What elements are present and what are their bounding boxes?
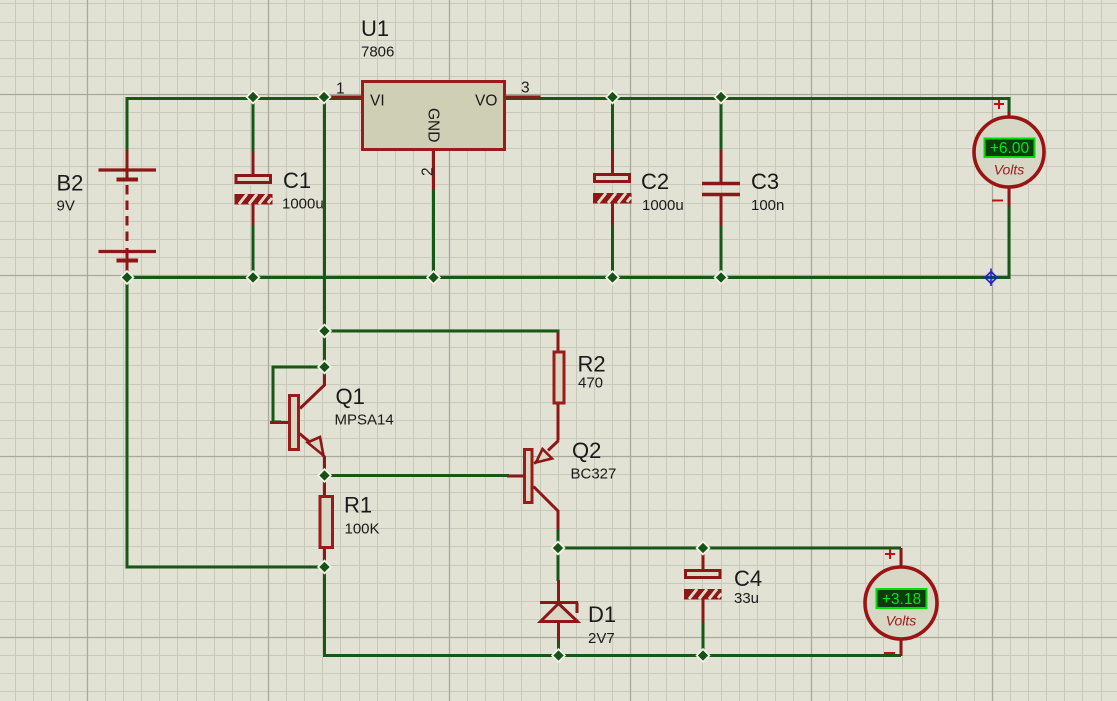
svg-text:3: 3 (521, 80, 530, 97)
C1 bottom plate hatched (235, 194, 273, 205)
wire ground rail (127, 276, 1009, 279)
VM1 LCD (985, 139, 1035, 158)
pin C2 leads (611, 150, 614, 225)
pin B2 dashed body (126, 185, 129, 247)
pin R1 leads (323, 477, 326, 566)
node C3 top (715, 91, 728, 104)
svg-text:1: 1 (336, 81, 345, 98)
capacitor C4 polarized (684, 566, 762, 607)
C3 plate bottom (702, 193, 740, 197)
svg-text:BC327: BC327 (571, 466, 617, 483)
svg-text:C3: C3 (751, 169, 779, 194)
Q1 base bar (290, 396, 299, 450)
VM1 minus mark (992, 200, 1003, 202)
resistor R1 (320, 497, 333, 548)
wire R1 bottom drop (323, 567, 326, 657)
voltmeter VM2 (865, 549, 937, 653)
pin meter1 leads (1008, 111, 1011, 206)
svg-text:+6.00: +6.00 (990, 140, 1030, 157)
svg-text:D1: D1 (588, 602, 616, 627)
svg-text:+3.18: +3.18 (882, 591, 921, 608)
VM1 plus mark (994, 99, 1004, 109)
node B2 ground (121, 271, 134, 284)
wire battery top drop (126, 97, 129, 151)
wire C2 bottom (611, 224, 614, 277)
wire top rail (127, 97, 1009, 100)
C2 top plate (595, 175, 630, 182)
capacitor C3 (702, 184, 740, 195)
wire Q2 base (325, 474, 510, 477)
VM2 body circle (865, 567, 937, 639)
wire U1 pin2 lower (432, 189, 435, 277)
node U1 pin2 ground (427, 271, 440, 284)
svg-text:R1: R1 (344, 493, 372, 518)
pin U1.3 (506, 96, 541, 99)
node Q1 emitter / R1 top (318, 469, 331, 482)
C3 plate top (702, 182, 740, 186)
VM2 minus mark (884, 652, 895, 654)
svg-text:2: 2 (420, 167, 437, 176)
Q2 collector lead (534, 487, 559, 530)
node R1 bottom (318, 561, 331, 574)
wire C2 top (611, 97, 614, 151)
wire branch to R2 (325, 330, 560, 333)
node C4 top (697, 542, 710, 555)
wire C1 bottom (252, 224, 255, 277)
svg-text:VI: VI (370, 93, 385, 110)
wire Q2 collector lower (557, 528, 560, 548)
svg-text:2V7: 2V7 (588, 630, 615, 647)
svg-text:Q2: Q2 (572, 438, 601, 463)
Q1 base lead (270, 421, 289, 424)
svg-text:U1: U1 (361, 16, 389, 41)
capacitor C2 polarized (593, 169, 684, 214)
wire bottom rail (325, 654, 902, 657)
pin D1 leads (557, 580, 560, 641)
C1 top plate (236, 176, 271, 183)
wire mid rail to meter2 (558, 547, 901, 550)
Q1 emitter lead (300, 434, 313, 445)
Q1 collector lead (300, 368, 325, 409)
wire C1 top (252, 97, 255, 152)
wire D1 top (557, 548, 560, 581)
origin marker (983, 269, 1001, 287)
node Q1 base loop (318, 361, 331, 374)
wire meter1 minus (1008, 205, 1011, 279)
B2 plate long bottom (99, 250, 157, 253)
svg-text:100n: 100n (751, 197, 784, 214)
zener diode D1 (540, 602, 616, 647)
wire D1 bottom (557, 639, 560, 655)
pin meter2 leads (900, 548, 903, 656)
capacitor C1 polarized (235, 168, 324, 213)
transistor Q2 BC327 (507, 438, 616, 529)
B2 plate short top (117, 178, 139, 182)
battery B2 (99, 170, 157, 261)
svg-text:GND: GND (425, 108, 442, 142)
pin U1.1 (324, 96, 361, 99)
D1 cathode bar (540, 603, 578, 614)
D1 anode triangle (541, 604, 578, 622)
svg-text:B2: B2 (57, 171, 84, 196)
pin R2 to Q2 emitter (557, 404, 560, 441)
wire C3 bottom (720, 224, 723, 277)
Q1 emitter arrow (308, 437, 324, 456)
node Q2 collector rail (552, 542, 565, 555)
wire C4 bottom (702, 621, 705, 655)
node C2 ground (606, 271, 619, 284)
wire left drop from ground rail (126, 277, 129, 569)
Q2 base lead (507, 475, 524, 478)
C4 bottom plate hatched (684, 589, 722, 600)
VM2 LCD (877, 589, 927, 608)
svg-text:Volts: Volts (994, 162, 1025, 178)
node C2 top (606, 91, 619, 104)
pin B2 leads (126, 150, 129, 274)
Q2 emitter arrow (536, 449, 552, 463)
pin C4 leads (702, 551, 705, 622)
svg-text:1000u: 1000u (642, 197, 684, 214)
C4 top plate (686, 571, 721, 578)
svg-text:Volts: Volts (886, 613, 917, 629)
node C1 ground (247, 271, 260, 284)
svg-text:1000u: 1000u (282, 196, 324, 213)
C2 bottom plate hatched (593, 193, 632, 204)
pin U1.2 (432, 151, 435, 190)
wire Q1 base loop (273, 367, 325, 422)
VM2 plus mark (885, 549, 895, 559)
U1 7806 regulator body (363, 82, 505, 150)
svg-text:R2: R2 (578, 352, 606, 377)
node R2 branch (318, 325, 331, 338)
svg-text:9V: 9V (57, 198, 75, 215)
svg-text:Q1: Q1 (336, 384, 365, 409)
voltmeter VM1 (974, 99, 1044, 201)
node D1 ground (552, 649, 565, 662)
wire C3 top (720, 97, 723, 151)
node top rail / pin1 (318, 91, 331, 104)
pin C3 leads (720, 150, 723, 225)
pin C1 leads (252, 151, 255, 225)
svg-text:470: 470 (578, 375, 603, 392)
transistor Q1 MPSA14 (270, 368, 394, 476)
Q2 emitter lead (548, 441, 559, 451)
VM1 body circle (974, 117, 1044, 187)
svg-text:VO: VO (475, 93, 497, 110)
svg-text:C4: C4 (734, 566, 762, 591)
svg-text:7806: 7806 (361, 44, 394, 61)
node C4 ground (697, 649, 710, 662)
svg-text:MPSA14: MPSA14 (335, 412, 394, 429)
wire meter1 plus (1008, 97, 1011, 112)
B2 plate short bottom (117, 259, 139, 263)
svg-text:C1: C1 (283, 168, 311, 193)
pin R2 lead top (557, 333, 560, 352)
node C3 ground (715, 271, 728, 284)
svg-text:33u: 33u (734, 590, 759, 607)
node C1 top (247, 91, 260, 104)
B2 plate long top (99, 168, 157, 171)
svg-text:100K: 100K (345, 521, 380, 538)
Q2 base bar (525, 450, 533, 503)
svg-text:C2: C2 (641, 169, 669, 194)
wire vertical pin1 to Q1 (323, 97, 326, 368)
resistor R2 (554, 352, 564, 403)
wire left to R1 bottom (126, 566, 327, 569)
